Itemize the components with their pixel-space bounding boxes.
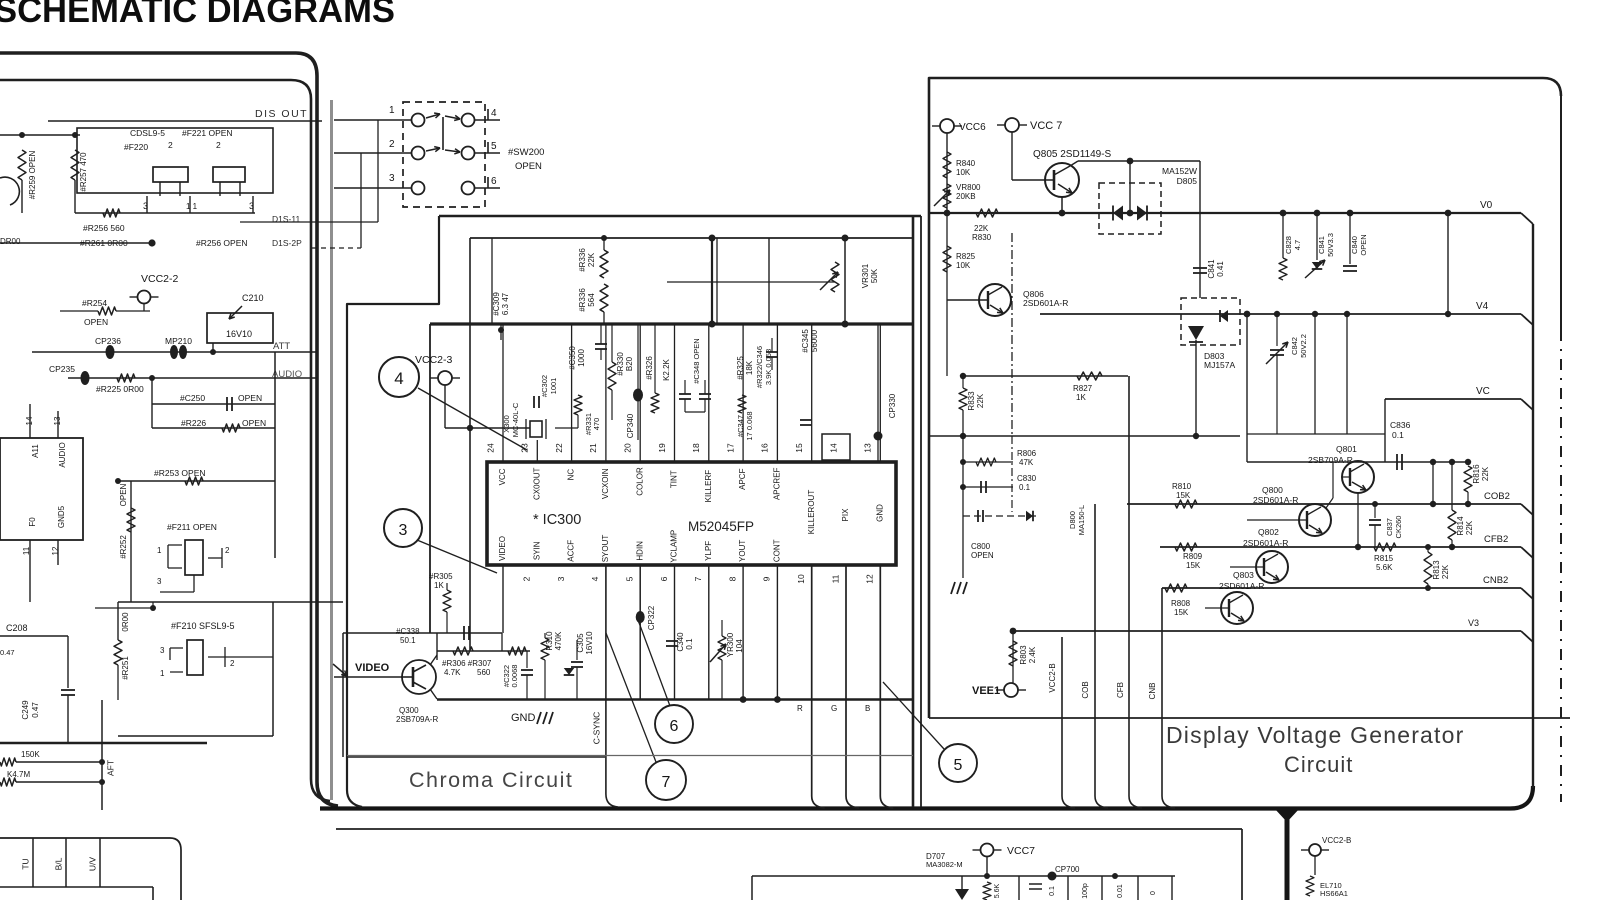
svg-text:2SD601A-R: 2SD601A-R [1243,538,1288,548]
svg-text:17 0.068: 17 0.068 [745,411,754,440]
svg-text:4.7: 4.7 [1293,240,1302,250]
svg-text:R809: R809 [1183,552,1203,561]
svg-text:OPEN: OPEN [971,551,994,560]
svg-text:2SB709A-R: 2SB709A-R [1308,455,1353,465]
svg-text:2: 2 [389,139,395,150]
svg-text:APCF: APCF [738,468,747,489]
svg-text:V3: V3 [1468,618,1479,628]
svg-text:5.6K: 5.6K [1376,563,1393,572]
svg-text:#R306 #R307: #R306 #R307 [442,659,492,668]
svg-text:1001: 1001 [549,378,558,395]
svg-text:#R322/C346: #R322/C346 [755,346,764,388]
svg-text:100p: 100p [1082,883,1089,899]
svg-text:Q300: Q300 [399,706,419,715]
svg-text:#R254: #R254 [82,298,107,308]
svg-text:1 1: 1 1 [186,202,198,211]
svg-text:VIDEO: VIDEO [355,662,390,674]
svg-text:15K: 15K [1174,608,1189,617]
svg-text:3: 3 [160,646,165,655]
svg-text:C841: C841 [1317,236,1326,254]
svg-text:0.47: 0.47 [31,702,40,718]
svg-text:VCC: VCC [498,468,507,485]
svg-text:10K: 10K [956,168,971,177]
svg-text:22K: 22K [587,252,596,267]
svg-text:1K: 1K [1076,393,1086,402]
svg-text:YCLAMP: YCLAMP [670,530,679,563]
svg-text:6.3 47: 6.3 47 [501,292,510,315]
svg-text:VR301: VR301 [861,263,870,288]
svg-text:CP700: CP700 [1055,865,1080,874]
svg-text:#R253 OPEN: #R253 OPEN [154,468,206,478]
svg-text:22K: 22K [1465,520,1474,535]
svg-text:SYIN: SYIN [532,541,541,560]
svg-text:VIDEO: VIDEO [498,536,507,561]
svg-text:HS66A1: HS66A1 [1320,889,1348,898]
svg-text:24: 24 [485,443,495,453]
svg-text:#F211 OPEN: #F211 OPEN [167,522,217,532]
svg-text:0.01: 0.01 [1117,884,1124,898]
svg-text:CP340: CP340 [626,413,635,438]
svg-text:1: 1 [157,546,162,555]
svg-text:2SD601A-R: 2SD601A-R [1023,298,1068,308]
svg-text:MC-40L-C: MC-40L-C [511,402,520,437]
svg-text:#F220: #F220 [124,142,148,152]
svg-text:5: 5 [624,576,634,581]
svg-text:MJ157A: MJ157A [1204,360,1236,370]
svg-text:CP330: CP330 [888,393,897,418]
svg-text:#R225 0R00: #R225 0R00 [96,384,144,394]
svg-text:VCC2-2: VCC2-2 [141,273,179,285]
svg-text:2: 2 [168,140,173,150]
svg-text:D800: D800 [1068,511,1077,529]
svg-text:D1S-2P: D1S-2P [272,238,302,248]
svg-text:K4.7M: K4.7M [7,770,30,779]
svg-text:17: 17 [725,443,735,453]
svg-text:C837: C837 [1385,518,1394,536]
svg-text:4: 4 [394,369,403,388]
svg-text:OPEN: OPEN [515,161,542,172]
svg-text:23: 23 [520,443,530,453]
svg-text:#C348 OPEN: #C348 OPEN [692,338,701,383]
svg-text:150K: 150K [21,750,40,759]
svg-text:R833: R833 [967,391,976,411]
svg-text:10: 10 [796,574,806,584]
svg-text:C-SYNC: C-SYNC [591,712,601,745]
svg-text:* IC300: * IC300 [533,512,581,528]
svg-text:#C302: #C302 [540,375,549,397]
svg-text:22: 22 [554,443,564,453]
svg-text:AUDIO: AUDIO [272,369,302,380]
svg-text:20: 20 [622,443,632,453]
svg-text:6: 6 [670,718,679,735]
svg-text:7: 7 [693,576,703,581]
svg-text:C840: C840 [1350,236,1359,254]
svg-text:CP235: CP235 [49,364,75,374]
svg-text:APCREF: APCREF [773,467,782,500]
svg-text:2SB709A-R: 2SB709A-R [396,715,438,724]
svg-text:C210: C210 [242,293,264,303]
svg-text:B/L: B/L [53,857,63,870]
svg-text:G: G [831,704,837,713]
svg-text:CK260: CK260 [1394,516,1403,539]
svg-text:COB2: COB2 [1484,491,1510,502]
svg-text:2: 2 [225,546,230,555]
svg-text:50V2.2: 50V2.2 [1299,334,1308,358]
svg-text:3: 3 [249,201,254,211]
svg-text:50K: 50K [870,268,879,283]
svg-text:YOUT: YOUT [738,540,747,562]
svg-text:OPEN: OPEN [242,418,266,428]
svg-text:R827: R827 [1073,384,1093,393]
svg-text:20KB: 20KB [956,192,976,201]
svg-text:C841: C841 [1207,259,1216,279]
svg-text:CFB: CFB [1116,682,1125,698]
svg-text:4.7K: 4.7K [444,668,461,677]
svg-text:R806: R806 [1017,449,1037,458]
svg-text:7: 7 [662,774,671,791]
svg-text:5: 5 [491,141,497,152]
svg-text:19: 19 [657,443,667,453]
svg-text:15K: 15K [1176,491,1191,500]
svg-text:GND: GND [875,504,884,522]
svg-text:OPEN: OPEN [1359,234,1368,255]
svg-text:3: 3 [556,576,566,581]
svg-text:#C345: #C345 [801,329,810,353]
svg-text:#R336: #R336 [578,248,587,272]
svg-text:564: 564 [587,293,596,307]
svg-text:12: 12 [51,546,60,555]
svg-text:1: 1 [160,669,165,678]
svg-text:#R326: #R326 [645,356,654,380]
svg-text:13: 13 [863,443,873,453]
svg-text:10K: 10K [956,261,971,270]
svg-text:9: 9 [762,576,772,581]
svg-text:C842: C842 [1290,337,1299,355]
svg-text:Q801: Q801 [1336,444,1357,454]
svg-text:R813: R813 [1432,560,1441,580]
svg-text:NC: NC [567,469,576,481]
svg-text:#R330: #R330 [616,352,625,376]
svg-text:2.4K: 2.4K [1028,646,1037,663]
svg-text:CNB2: CNB2 [1483,575,1508,586]
svg-text:VEE1: VEE1 [972,685,1000,697]
svg-text:1: 1 [389,105,395,116]
svg-text:CX0OUT: CX0OUT [532,467,541,500]
svg-text:15K: 15K [1186,561,1201,570]
svg-text:D805: D805 [1177,176,1198,186]
svg-text:HDIN: HDIN [635,541,644,561]
svg-text:R310: R310 [545,631,554,651]
svg-text:R815: R815 [1374,554,1394,563]
svg-text:K2.2K: K2.2K [662,358,671,380]
svg-text:SCHEMATIC DIAGRAMS: SCHEMATIC DIAGRAMS [0,0,395,30]
svg-text:4: 4 [491,108,497,119]
svg-text:VCC 7: VCC 7 [1030,120,1062,132]
svg-text:0.1: 0.1 [1392,430,1404,440]
svg-text:COB: COB [1081,681,1090,698]
svg-text:470K: 470K [554,631,563,650]
svg-text:R825: R825 [956,252,976,261]
svg-text:CDSL9-5: CDSL9-5 [130,128,165,138]
svg-text:CP322: CP322 [647,605,656,630]
svg-text:TINT: TINT [670,470,679,488]
svg-text:Q802: Q802 [1258,527,1279,537]
svg-text:V4: V4 [1476,301,1489,312]
svg-text:AFT: AFT [105,760,115,776]
svg-text:SYOUT: SYOUT [601,535,610,563]
svg-text:MA3082-M: MA3082-M [926,860,963,869]
svg-text:#R256 OPEN: #R256 OPEN [196,238,248,248]
svg-text:ACCF: ACCF [567,540,576,562]
svg-text:2SD601A-R: 2SD601A-R [1219,581,1264,591]
svg-text:#R252: #R252 [119,535,128,559]
svg-text:22K: 22K [1441,564,1450,579]
svg-text:PIX: PIX [841,508,850,522]
svg-text:18: 18 [691,443,701,453]
svg-text:0.41: 0.41 [1216,261,1225,277]
svg-text:Q805 2SD1149-S: Q805 2SD1149-S [1033,149,1112,160]
svg-text:16V10: 16V10 [585,631,594,655]
svg-text:CP236: CP236 [95,336,121,346]
svg-text:R808: R808 [1171,599,1191,608]
svg-text:ATT: ATT [273,341,290,352]
svg-text:22K: 22K [1481,466,1490,481]
svg-text:0R00: 0R00 [121,612,130,632]
svg-text:5.6K: 5.6K [994,883,1001,898]
svg-text:2: 2 [522,576,532,581]
svg-text:C340: C340 [676,632,685,652]
svg-text:#SW200: #SW200 [508,147,544,158]
svg-text:C305: C305 [576,633,585,653]
svg-text:#R336: #R336 [578,288,587,312]
svg-text:F0: F0 [28,517,37,527]
svg-text:16: 16 [760,443,770,453]
svg-text:21: 21 [588,443,598,453]
svg-text:C800: C800 [971,542,991,551]
svg-text:VCC2-3: VCC2-3 [415,354,453,366]
svg-text:4: 4 [590,576,600,581]
svg-text:#C338: #C338 [396,627,420,636]
svg-text:#F221 OPEN: #F221 OPEN [182,128,233,138]
svg-text:R816: R816 [1472,464,1481,484]
svg-text:B20: B20 [625,356,634,371]
svg-text:560: 560 [477,668,491,677]
svg-text:DIS OUT: DIS OUT [255,108,308,120]
svg-text:YR300: YR300 [726,632,735,657]
svg-text:2: 2 [216,140,221,150]
svg-text:U/V: U/V [87,857,97,872]
svg-text:#R257 470: #R257 470 [79,152,88,192]
svg-text:50.1: 50.1 [400,636,416,645]
svg-text:16V10: 16V10 [226,329,252,339]
svg-text:COLOR: COLOR [635,467,644,496]
svg-text:#R305: #R305 [429,572,453,581]
svg-text:11: 11 [830,574,840,583]
svg-text:#C250: #C250 [180,393,205,403]
svg-text:18K: 18K [745,360,754,375]
svg-text:YLPF: YLPF [704,541,713,561]
svg-text:#R259 OPEN: #R259 OPEN [28,151,37,200]
svg-text:CNB: CNB [1148,683,1157,700]
svg-text:47K: 47K [1019,458,1034,467]
svg-text:Circuit: Circuit [1284,752,1353,777]
svg-text:6: 6 [659,576,669,581]
svg-text:C830: C830 [1017,474,1037,483]
svg-text:CFB2: CFB2 [1484,534,1508,545]
svg-text:#R226: #R226 [181,418,206,428]
svg-text:DR00: DR00 [0,237,21,246]
svg-text:A11: A11 [31,444,40,458]
svg-text:0.0068: 0.0068 [510,665,519,688]
svg-text:0.1: 0.1 [1019,483,1031,492]
svg-text:3: 3 [157,577,162,586]
svg-text:OPEN: OPEN [238,393,262,403]
svg-text:8: 8 [727,576,737,581]
svg-text:VR800: VR800 [956,183,981,192]
svg-text:VCC2-B: VCC2-B [1048,663,1057,692]
svg-text:Display Voltage Generator: Display Voltage Generator [1166,722,1465,748]
svg-text:3: 3 [143,201,148,211]
svg-text:R814: R814 [1456,516,1465,536]
svg-text:VC: VC [1476,386,1490,397]
svg-text:0.1: 0.1 [1049,886,1056,896]
svg-text:CONT: CONT [773,539,782,562]
svg-text:OPEN: OPEN [84,317,108,327]
svg-text:MA150-L: MA150-L [1077,505,1086,535]
svg-text:5: 5 [954,757,963,774]
svg-text:R803: R803 [1019,645,1028,665]
svg-text:C828: C828 [1284,236,1293,254]
svg-text:B: B [865,704,870,713]
svg-text:22K: 22K [976,393,985,408]
svg-text:12: 12 [865,574,875,584]
svg-text:Q800: Q800 [1262,485,1283,495]
svg-text:2SD601A-R: 2SD601A-R [1253,495,1298,505]
svg-text:6: 6 [491,176,497,187]
svg-text:0.47: 0.47 [0,648,15,657]
svg-text:OPEN: OPEN [119,483,128,506]
svg-text:VCXOIN: VCXOIN [601,468,610,499]
svg-text:KILLEROUT: KILLEROUT [807,490,816,535]
svg-text:3: 3 [389,173,395,184]
svg-text:D1S-11: D1S-11 [272,214,300,224]
svg-text:GND5: GND5 [57,505,66,528]
svg-text:3: 3 [399,522,408,539]
svg-text:VCC2-B: VCC2-B [1322,836,1351,845]
svg-text:AUDIO: AUDIO [58,442,67,467]
svg-text:#C350: #C350 [568,346,577,370]
svg-text:R810: R810 [1172,482,1192,491]
svg-text:#R256 560: #R256 560 [83,223,125,233]
svg-text:#F210 SFSL9-5: #F210 SFSL9-5 [171,621,235,631]
svg-text:C836: C836 [1390,420,1411,430]
svg-text:KILLERF: KILLERF [704,470,713,503]
svg-text:R830: R830 [972,233,992,242]
svg-text:Q803: Q803 [1233,570,1254,580]
svg-text:1000: 1000 [577,349,586,367]
svg-text:470: 470 [592,418,601,431]
svg-text:R: R [797,704,803,713]
svg-text:MA152W: MA152W [1162,166,1197,176]
svg-text:Chroma Circuit: Chroma Circuit [409,768,573,792]
svg-text:#R325: #R325 [736,356,745,380]
svg-text:GND: GND [511,712,536,724]
svg-text:0: 0 [1150,891,1157,895]
svg-text:#C309: #C309 [492,292,501,316]
svg-text:C208: C208 [6,623,28,633]
svg-text:22K: 22K [974,224,989,233]
svg-text:TU: TU [20,858,30,869]
svg-text:MP210: MP210 [165,336,192,346]
svg-text:V0: V0 [1480,200,1493,211]
svg-text:0.1: 0.1 [685,638,694,650]
svg-text:VCC6: VCC6 [959,122,986,133]
svg-text:2: 2 [230,659,235,668]
svg-text:C249: C249 [21,700,30,720]
svg-text:14: 14 [828,443,838,453]
svg-text:R840: R840 [956,159,976,168]
svg-text:#R251: #R251 [121,656,130,680]
svg-text:M52045FP: M52045FP [688,519,754,534]
svg-text:15: 15 [794,443,804,453]
svg-text:1K: 1K [434,581,444,590]
svg-text:VCC7: VCC7 [1007,845,1035,857]
svg-text:50V3.3: 50V3.3 [1326,233,1335,257]
